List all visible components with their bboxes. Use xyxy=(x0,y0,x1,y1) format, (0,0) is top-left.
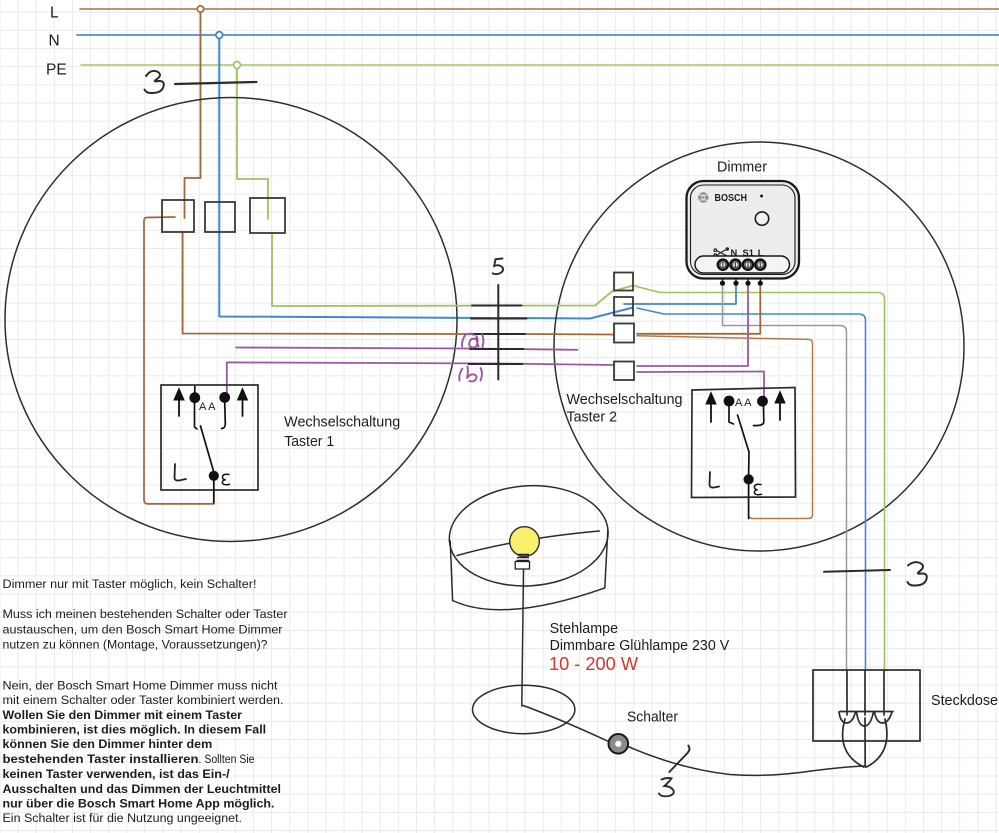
svg-text:nur über die Bosch Smart Home: nur über die Bosch Smart Home App möglic… xyxy=(3,796,275,810)
svg-text:Nein, der Bosch Smart Home Dim: Nein, der Bosch Smart Home Dimmer muss n… xyxy=(3,679,279,693)
svg-text:können Sie den Dimmer hinter d: können Sie den Dimmer hinter dem xyxy=(3,737,213,751)
svg-text:bestehenden Taster installiere: bestehenden Taster installieren xyxy=(3,752,199,766)
svg-text:Wollen Sie den Dimmer mit eine: Wollen Sie den Dimmer mit einem Taster xyxy=(3,708,243,722)
svg-text:. Sollten Sie: . Sollten Sie xyxy=(199,752,255,766)
svg-text:nutzen zu können (Montage, Vor: nutzen zu können (Montage, Voraussetzung… xyxy=(3,638,268,652)
svg-text:keinen Taster verwenden, ist d: keinen Taster verwenden, ist das Ein-/ xyxy=(3,767,231,781)
svg-text:Dimmer nur mit Taster möglich,: Dimmer nur mit Taster möglich, kein Scha… xyxy=(3,577,257,591)
svg-text:Muss ich meinen bestehenden Sc: Muss ich meinen bestehenden Schalter ode… xyxy=(3,607,288,621)
svg-text:mit einem Schalter oder Taster: mit einem Schalter oder Taster kombinier… xyxy=(3,693,284,707)
svg-text:Ausschalten und das Dimmen der: Ausschalten und das Dimmen der Leuchtmit… xyxy=(3,782,282,796)
svg-text:Ein Schalter ist für die Nutzu: Ein Schalter ist für die Nutzung ungeeig… xyxy=(3,811,242,825)
svg-text:austauschen, um den Bosch Smar: austauschen, um den Bosch Smart Home Dim… xyxy=(3,622,283,636)
svg-text:kombinieren, ist dies möglich.: kombinieren, ist dies möglich. In diesem… xyxy=(3,723,267,737)
